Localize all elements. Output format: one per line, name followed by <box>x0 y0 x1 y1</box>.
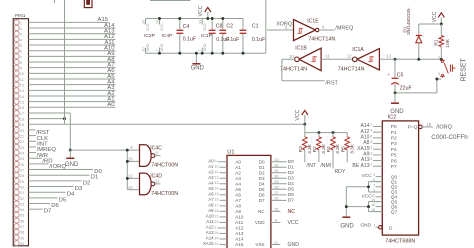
wire pin11 net A5 <box>29 74 116 80</box>
svg-text:18: 18 <box>20 117 25 122</box>
svg-text:A12: A12 <box>235 226 244 231</box>
capacitor C4 <box>176 19 196 54</box>
wire to IC4 gate inputs <box>70 149 127 151</box>
svg-text:+: + <box>387 72 390 77</box>
svg-text:12: 12 <box>20 83 25 88</box>
wire pin15 net A1 <box>29 96 116 102</box>
IC2 pin 11 net XA15 <box>357 146 397 153</box>
wire IC1B output to /RST <box>282 54 339 87</box>
wire IC1B.11 - IC1A.12 <box>321 53 353 59</box>
junction <box>394 91 397 94</box>
svg-text:Q1: Q1 <box>391 179 398 185</box>
resistor R4 3.3K <box>326 133 346 175</box>
svg-text:31: 31 <box>214 242 218 246</box>
svg-text:21: 21 <box>274 241 278 245</box>
wire (cut off at top edge) <box>150 0 191 2</box>
svg-text:16: 16 <box>20 105 25 110</box>
svg-text:PIN1: PIN1 <box>15 13 26 18</box>
svg-text:4: 4 <box>370 129 372 133</box>
svg-text:GND: GND <box>203 43 207 51</box>
power pins IC1P <box>198 19 212 54</box>
svg-text:11: 11 <box>214 170 218 174</box>
svg-text:IC2: IC2 <box>388 114 397 120</box>
svg-text:37: 37 <box>20 224 25 229</box>
U1 pin 2 net A12 <box>206 225 244 231</box>
svg-text:17: 17 <box>214 203 218 207</box>
IC U1 <box>227 150 271 248</box>
svg-text:D6: D6 <box>288 192 294 198</box>
svg-text:A5: A5 <box>208 186 214 191</box>
U1 pin 23 net A11 <box>206 219 243 225</box>
svg-text:36: 36 <box>20 218 25 223</box>
svg-text:RDY: RDY <box>335 169 346 175</box>
svg-text:26: 26 <box>274 196 279 201</box>
svg-text:Q2: Q2 <box>391 185 398 191</box>
svg-text:35: 35 <box>20 213 25 218</box>
junction <box>201 52 204 55</box>
svg-text:10: 10 <box>289 54 294 59</box>
svg-text:A10: A10 <box>235 215 244 220</box>
svg-text:9: 9 <box>214 159 216 163</box>
svg-text:VCC: VCC <box>146 23 150 31</box>
U1 pin 26 net D7 <box>259 196 294 204</box>
junction <box>126 177 129 180</box>
svg-text:17: 17 <box>368 163 372 167</box>
svg-text:D6: D6 <box>51 203 59 209</box>
svg-text:R5: R5 <box>340 146 346 152</box>
nand IC4D 74HCT00N <box>128 173 178 197</box>
U1 pin 30 net D3 <box>259 174 294 182</box>
wire pin21 net CLK <box>29 136 49 142</box>
wire stub (top edge) <box>54 0 56 3</box>
svg-text:U1: U1 <box>227 150 234 156</box>
svg-text:21: 21 <box>20 134 25 139</box>
IC2 pin 6 net A10 <box>360 134 397 141</box>
junction <box>221 17 224 20</box>
svg-text:11: 11 <box>325 53 330 58</box>
junction <box>69 149 72 152</box>
svg-text:D2: D2 <box>83 180 91 186</box>
wire pin7 net A9 <box>29 51 116 57</box>
svg-text:15: 15 <box>20 100 25 105</box>
svg-text:GND: GND <box>146 43 150 51</box>
svg-text:23: 23 <box>214 220 218 224</box>
ground (rail) <box>191 53 205 71</box>
svg-text:A8: A8 <box>235 203 241 208</box>
U1 pin 17 net A8 <box>208 202 241 208</box>
svg-text:A0: A0 <box>208 158 214 163</box>
svg-text:22uF: 22uF <box>400 86 412 92</box>
svg-text:20: 20 <box>20 128 25 133</box>
svg-text:D5: D5 <box>259 187 265 192</box>
wire pin23 net /MREQ <box>29 147 57 153</box>
wire pin20 net /RST <box>29 130 50 136</box>
svg-text:17: 17 <box>20 111 25 116</box>
svg-text:P6: P6 <box>391 158 397 164</box>
wire pin8 net A8 <box>29 57 116 63</box>
svg-text:D7: D7 <box>44 209 52 215</box>
wire pin5 net A11 <box>29 40 116 46</box>
svg-text:13: 13 <box>368 151 372 155</box>
junction <box>206 17 209 20</box>
svg-text:24: 24 <box>20 150 25 155</box>
IC2 pin 9 Q3 <box>373 189 397 196</box>
svg-text:D4: D4 <box>259 181 265 186</box>
VCC rail (top) <box>146 19 244 31</box>
junction <box>394 58 397 61</box>
svg-text:VCC: VCC <box>160 23 164 31</box>
svg-text:10: 10 <box>20 71 25 76</box>
IC2 pin 18 Q7 <box>371 208 397 215</box>
junction <box>345 205 348 208</box>
wire pin4 net A12 <box>29 34 116 40</box>
op-amp IC1A 74HCT14N inverter <box>338 47 380 73</box>
svg-text:VCC: VCC <box>361 173 372 179</box>
svg-text:A13: A13 <box>206 230 214 235</box>
svg-text:34: 34 <box>20 207 25 212</box>
U1 pin 21 GND <box>255 241 299 248</box>
svg-text:3: 3 <box>373 173 375 177</box>
svg-text:VCC: VCC <box>288 220 299 226</box>
svg-text:16: 16 <box>214 198 218 202</box>
svg-text:27: 27 <box>20 167 25 172</box>
supply VCC (top) <box>198 5 211 18</box>
IC2 pin 14 Q5 <box>371 198 397 205</box>
wire gate input tree <box>127 150 139 190</box>
svg-text:12: 12 <box>214 176 218 180</box>
svg-text:Q7: Q7 <box>391 209 398 215</box>
junction <box>303 123 306 126</box>
svg-text:A3: A3 <box>235 176 241 181</box>
wire from top (VCC feed) <box>29 0 305 124</box>
svg-text:13: 13 <box>387 53 392 58</box>
wire IC1E output /MREQ <box>319 25 354 32</box>
svg-text:D2: D2 <box>259 170 265 175</box>
svg-text:11: 11 <box>369 146 373 150</box>
svg-text:1: 1 <box>373 224 375 228</box>
svg-text:6: 6 <box>370 134 372 138</box>
svg-text:P4: P4 <box>391 147 397 153</box>
svg-text:14: 14 <box>198 20 202 24</box>
svg-text:15: 15 <box>214 192 218 196</box>
svg-text:VCC: VCC <box>198 5 204 16</box>
GND rail (bottom) <box>146 52 266 54</box>
svg-text:P0: P0 <box>391 124 397 130</box>
svg-text:31: 31 <box>274 168 279 173</box>
svg-text:C5: C5 <box>397 72 404 78</box>
svg-text:IC1B: IC1B <box>295 45 307 51</box>
svg-text:12: 12 <box>128 174 133 179</box>
svg-text:38: 38 <box>20 230 25 235</box>
svg-text:/MREQ: /MREQ <box>335 25 354 31</box>
svg-text:26: 26 <box>214 231 218 235</box>
wire pin10 net A6 <box>29 68 116 74</box>
svg-text:IC1E: IC1E <box>307 19 319 25</box>
svg-text:7: 7 <box>373 183 375 187</box>
capacitor C1 <box>240 19 266 54</box>
U1 pin 18 net A9 <box>208 208 241 214</box>
capacitor C2 <box>219 19 239 54</box>
wire pin1 net A15 <box>29 17 110 23</box>
svg-text:0.1uF: 0.1uF <box>226 37 239 43</box>
svg-text:2: 2 <box>214 225 216 229</box>
IC2 pin 4 net A12 <box>360 129 397 136</box>
power pins IC4P <box>155 19 172 54</box>
svg-text:13: 13 <box>128 185 133 190</box>
wire pin25 net /RD <box>29 158 53 164</box>
wire pin18 <box>29 118 65 120</box>
wire pin32 net D5 <box>29 197 67 203</box>
svg-text:A4: A4 <box>235 181 241 186</box>
jumper JP (cut off at top) <box>84 0 92 8</box>
svg-text:14: 14 <box>214 187 218 191</box>
svg-text:IC4P: IC4P <box>162 33 173 39</box>
svg-text:21: 21 <box>214 214 218 218</box>
svg-text:12: 12 <box>371 193 375 197</box>
svg-text:R1: R1 <box>434 39 440 45</box>
IC2 pin 16 Q6 <box>371 203 397 210</box>
wire pin14 net A2 <box>29 91 116 97</box>
svg-text:P3: P3 <box>391 141 397 147</box>
svg-text:D1: D1 <box>259 165 265 170</box>
svg-text:3.3K: 3.3K <box>349 143 355 154</box>
junction <box>367 205 370 208</box>
svg-text:28: 28 <box>274 185 279 190</box>
junction <box>367 185 370 188</box>
IC2 pin 13 net A9 <box>363 151 397 158</box>
capacitor C8 <box>209 19 230 54</box>
U1 pin 35 NC <box>258 208 295 215</box>
junction <box>63 117 66 120</box>
svg-text:30: 30 <box>274 174 279 179</box>
svg-text:GND: GND <box>360 223 371 229</box>
svg-text:28: 28 <box>20 173 25 178</box>
svg-text:P7: P7 <box>391 164 397 170</box>
svg-text:A5: A5 <box>235 187 241 192</box>
svg-text:10: 10 <box>214 165 218 169</box>
svg-text:10K: 10K <box>445 38 451 47</box>
svg-text:24: 24 <box>214 236 218 240</box>
wire IC1A.13 reset node <box>379 53 441 59</box>
U1 pin 31 net D2 <box>259 168 294 176</box>
svg-text:0.1uF: 0.1uF <box>252 37 265 43</box>
svg-text:12: 12 <box>347 53 352 58</box>
svg-text:D1: D1 <box>288 164 294 170</box>
svg-text:A11: A11 <box>206 219 214 224</box>
svg-text:P2: P2 <box>391 136 397 142</box>
svg-text:C8: C8 <box>216 24 223 30</box>
svg-text:G: G <box>389 226 393 232</box>
svg-text:/NMI: /NMI <box>320 163 331 169</box>
ground (IC2 Q) <box>342 216 350 218</box>
wire pin29 net D2 <box>29 180 91 186</box>
svg-text:D4: D4 <box>288 181 294 187</box>
U1 pin 15 net A6 <box>208 191 241 197</box>
svg-text:A7: A7 <box>235 198 241 203</box>
svg-text:D7: D7 <box>288 198 294 204</box>
svg-text:22: 22 <box>20 139 25 144</box>
U1 pin 10 net A1 <box>208 164 241 170</box>
svg-text:A3: A3 <box>208 175 214 180</box>
svg-text:GND: GND <box>340 223 354 229</box>
svg-text:3.3K: 3.3K <box>335 143 341 154</box>
connector PIN1 <box>13 13 28 246</box>
U1 pin 29 net D4 <box>259 179 294 187</box>
wire pin26 net /IORQ <box>29 164 67 170</box>
wire pin2 net A14 <box>29 23 116 29</box>
svg-text:A10: A10 <box>206 214 214 219</box>
U1 pin 9 net A0 <box>208 158 241 164</box>
svg-text:A14: A14 <box>235 237 244 242</box>
IC2 pin 2 net A14 <box>360 123 397 130</box>
svg-text:GND: GND <box>65 162 79 168</box>
wire pin33 net D6 <box>29 203 60 209</box>
svg-text:A1: A1 <box>235 165 241 170</box>
power pins IC2P <box>141 19 155 54</box>
wire IC1E input /IORQ <box>267 22 294 30</box>
resistor R3 3.3K <box>298 133 316 169</box>
svg-text:1: 1 <box>438 56 440 60</box>
svg-text:D0: D0 <box>259 159 265 164</box>
svg-text:VDD: VDD <box>255 220 265 225</box>
svg-text:XA15: XA15 <box>203 241 214 246</box>
wire Q pins to GND <box>346 182 382 217</box>
resistor R2 3.3K <box>312 133 331 169</box>
svg-text:33: 33 <box>274 157 279 162</box>
svg-text:/RST: /RST <box>325 81 338 87</box>
svg-text:A14: A14 <box>206 236 214 241</box>
svg-text:1N4148DO35-: 1N4148DO35- <box>406 7 411 35</box>
U1 pin 12 net A3 <box>208 175 241 181</box>
nand IC4C 74HCT00N <box>128 145 178 169</box>
svg-text:39: 39 <box>20 235 25 240</box>
IC2 pin 15 net A11 <box>361 157 397 164</box>
pushbutton S1 RESET <box>438 56 467 82</box>
svg-text:7: 7 <box>198 50 202 52</box>
svg-text:A6: A6 <box>235 192 241 197</box>
svg-text:VCC: VCC <box>295 109 301 120</box>
junction <box>440 23 443 26</box>
svg-text:C1: C1 <box>252 24 259 30</box>
wire pin24 net /WR <box>29 153 49 159</box>
svg-text:30: 30 <box>20 184 25 189</box>
junction <box>178 52 181 55</box>
svg-text:A11: A11 <box>235 220 243 225</box>
svg-text:A0: A0 <box>107 102 115 108</box>
svg-text:D0: D0 <box>288 159 294 165</box>
wire pin31 net D4 <box>29 192 75 198</box>
svg-text:3: 3 <box>438 72 440 76</box>
U1 pin 32 net D1 <box>259 163 294 171</box>
svg-text:33: 33 <box>20 201 25 206</box>
wire /IORQ feed (from top) <box>265 0 267 53</box>
svg-text:D3: D3 <box>75 186 83 192</box>
wire pin28 net D1 <box>29 175 99 181</box>
svg-text:25: 25 <box>20 156 25 161</box>
svg-text:27: 27 <box>274 190 279 195</box>
IC2 pin 7 Q2 <box>373 183 397 190</box>
svg-text:A9: A9 <box>235 209 241 214</box>
U1 pin 31 net XA15 <box>203 241 244 247</box>
svg-text:D6: D6 <box>259 192 265 197</box>
svg-text:A12: A12 <box>206 225 214 230</box>
wire pin3 net A13 <box>29 29 116 35</box>
svg-text:10: 10 <box>141 48 145 52</box>
svg-text:13: 13 <box>20 88 25 93</box>
junction <box>178 17 181 20</box>
wire D1 top to VCC <box>419 23 442 25</box>
svg-text:29: 29 <box>274 179 279 184</box>
junction <box>158 52 161 55</box>
U1 pin 24 net A14 <box>206 236 244 242</box>
svg-text:A9: A9 <box>208 208 214 213</box>
IC2 pin 1 G enable <box>360 223 392 232</box>
svg-text:74HCT14N: 74HCT14N <box>338 67 365 73</box>
svg-text:19: 19 <box>426 122 431 127</box>
svg-text:VCC: VCC <box>432 11 438 22</box>
wire pin17 (GND to gate inputs) <box>29 113 71 150</box>
svg-text:P1: P1 <box>391 130 397 136</box>
svg-text:A1: A1 <box>208 164 214 169</box>
op-amp IC1E 74HCT14N inverter <box>294 19 336 43</box>
IC2 P=Q output pin 19 /IORQ <box>408 122 453 131</box>
svg-text:74HCT688N: 74HCT688N <box>385 238 415 244</box>
junction <box>211 17 214 20</box>
svg-text:18: 18 <box>214 209 218 213</box>
svg-text:IC2P: IC2P <box>144 33 155 39</box>
wire pin9 net A7 <box>29 62 116 68</box>
wire pin12 net A4 <box>29 79 116 85</box>
svg-text:8: 8 <box>370 140 372 144</box>
IC2 pin 5 Q1 <box>373 178 397 185</box>
svg-text:23: 23 <box>20 145 25 150</box>
IC2 74HCT688N <box>382 114 418 244</box>
svg-text:14: 14 <box>155 20 159 24</box>
svg-text:A6: A6 <box>208 191 214 196</box>
svg-text:/INT: /INT <box>306 163 316 169</box>
svg-text:BE: BE <box>352 163 359 169</box>
IC2 pin 8 net A8 <box>363 140 397 147</box>
svg-text:29: 29 <box>20 179 25 184</box>
svg-text:A7: A7 <box>208 197 214 202</box>
junction <box>195 52 198 55</box>
resistor R1 10K <box>434 24 451 59</box>
IC2 pin 3 Q0 <box>361 173 397 180</box>
junction <box>440 58 443 61</box>
junction <box>417 58 420 61</box>
svg-text:20: 20 <box>141 20 145 24</box>
svg-text:P=Q: P=Q <box>408 124 418 130</box>
junction <box>317 131 320 134</box>
junction <box>242 52 245 55</box>
svg-text:74HCT00N: 74HCT00N <box>151 163 178 169</box>
svg-text:35: 35 <box>274 208 278 212</box>
resistor R5 3.3K <box>340 133 359 169</box>
supply VCC (reset) <box>432 11 444 24</box>
ground (reset) <box>390 93 404 115</box>
wire pin13 net A3 <box>29 85 116 91</box>
wire pin16 net A0 <box>29 102 116 108</box>
svg-text:C4: C4 <box>183 24 190 30</box>
U1 pin 16 net A7 <box>208 197 241 203</box>
svg-text:R3: R3 <box>298 146 304 152</box>
svg-text:26: 26 <box>20 162 25 167</box>
svg-text:GND: GND <box>160 43 164 51</box>
svg-text:/IORQ: /IORQ <box>436 125 452 131</box>
svg-text:31: 31 <box>20 190 25 195</box>
svg-text:D2: D2 <box>288 170 294 176</box>
svg-text:D5: D5 <box>59 197 67 203</box>
